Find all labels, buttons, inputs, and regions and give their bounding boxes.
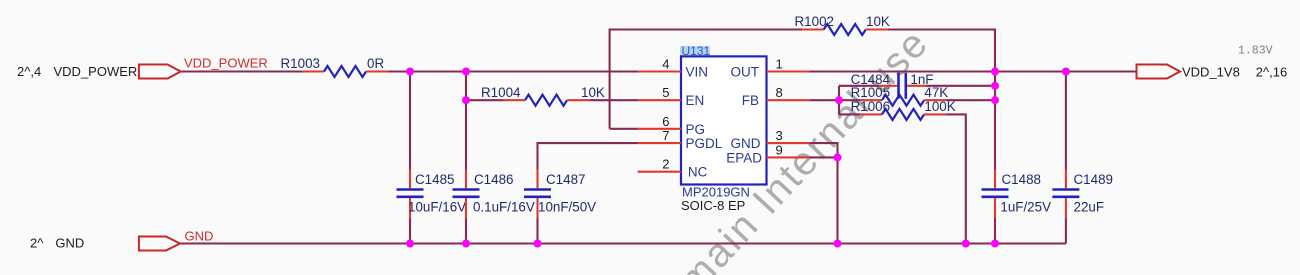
node main rail / C1485 [406,68,414,76]
wire FB vertical [838,86,840,115]
svg-text:4: 4 [662,57,669,72]
resistor R1005 [839,85,995,106]
svg-text:2^: 2^ [30,236,44,251]
wire top pullup right [888,30,995,72]
svg-text:47K: 47K [924,85,948,100]
pin 4 VIN [638,70,681,72]
node OUT / top [991,68,999,76]
pin 6 PG [610,128,639,130]
svg-text:FB: FB [742,93,759,108]
node EN branch [462,96,470,104]
pin 8 FB [767,99,810,101]
svg-text:6: 6 [662,114,669,129]
wire GND pin net [809,143,837,243]
svg-text:2: 2 [662,157,669,172]
wire FB node [809,99,839,101]
pin 3 GND [767,142,810,144]
svg-text:1uF/25V: 1uF/25V [1000,200,1051,215]
port VDD_1V8 output [1137,45,1288,80]
svg-text:EPAD: EPAD [726,150,762,165]
capacitor C1487 [524,170,596,244]
svg-text:0R: 0R [367,56,384,71]
pin 1 OUT [767,70,810,72]
svg-text:GND: GND [731,136,761,151]
svg-text:SOIC-8 EP: SOIC-8 EP [681,198,745,213]
svg-text:10K: 10K [581,85,605,100]
node GND / R1006 [962,240,970,248]
wire GND rail [180,242,1066,244]
svg-text:R1004: R1004 [481,85,521,100]
resistor R1003 [281,56,389,77]
svg-text:R1005: R1005 [851,85,890,100]
svg-text:1: 1 [776,57,783,72]
svg-text:EN: EN [686,93,705,108]
node GND / C1488 [991,240,999,248]
svg-text:10uF/16V: 10uF/16V [408,200,466,215]
svg-text:R1002: R1002 [795,14,834,29]
wire main VDD rail [181,70,303,72]
wire EN to pin [589,99,638,101]
capacitor C1486 [453,72,535,244]
capacitor C1488 [982,72,1052,244]
node EPAD junction [834,153,842,161]
pin 5 EN [638,99,681,101]
pin 7 PGDL [638,142,681,144]
svg-text:3: 3 [776,128,783,143]
capacitor C1489 [1052,72,1113,244]
capacitor C1485 [397,72,467,244]
svg-text:100K: 100K [924,99,955,114]
node main rail / C1486 [462,68,470,76]
svg-text:5: 5 [662,85,669,100]
svg-text:2^,16: 2^,16 [1256,64,1287,79]
svg-text:VDD_POWER: VDD_POWER [54,64,138,79]
node OUT / C1489 [1062,68,1070,76]
wire top pullup loop [610,30,803,129]
svg-text:2^,4: 2^,4 [17,64,41,79]
svg-text:10K: 10K [866,14,890,29]
svg-text:C1488: C1488 [1002,172,1041,187]
svg-text:PG: PG [686,122,706,137]
svg-text:NC: NC [688,165,708,180]
port GND [30,228,213,250]
wire PGDL net [538,143,639,169]
capacitor C1484 [839,72,995,99]
pin 9 EPAD [767,156,810,158]
svg-text:8: 8 [776,85,783,100]
node FB [835,96,843,104]
node GND / C1487 [534,240,542,248]
node OUT / C1484 [991,82,999,90]
svg-text:C1485: C1485 [415,172,454,187]
svg-text:GND: GND [185,228,214,243]
wire EPAD net [809,156,837,158]
wire OUT rail [809,70,1136,72]
svg-text:PGDL: PGDL [686,136,723,151]
svg-text:7: 7 [662,128,669,143]
svg-text:VDD_1V8: VDD_1V8 [1182,64,1240,79]
op-amp U131 IC box [680,44,767,213]
node GND / EPAD [834,240,842,248]
resistor R1006 [839,99,966,243]
svg-text:C1487: C1487 [546,172,585,187]
wire EN branch [466,99,504,101]
svg-text:OUT: OUT [731,65,760,80]
svg-text:C1486: C1486 [474,172,513,187]
node GND / C1486 [462,240,470,248]
svg-text:C1489: C1489 [1074,172,1113,187]
svg-text:GND: GND [55,236,84,251]
svg-text:R1003: R1003 [281,56,320,71]
svg-text:9: 9 [776,142,783,157]
svg-text:1.83V: 1.83V [1238,45,1273,58]
wire VDD rail mid [388,70,638,72]
svg-text:22uF: 22uF [1074,200,1105,215]
svg-text:VDD_POWER: VDD_POWER [184,56,268,71]
svg-text:10nF/50V: 10nF/50V [538,200,596,215]
svg-text:R1006: R1006 [851,99,890,114]
svg-text:0.1uF/16V: 0.1uF/16V [473,200,535,215]
svg-text:VIN: VIN [686,65,709,80]
resistor R1002 [795,14,890,35]
node OUT / R1005 [991,96,999,104]
node GND / C1485 [406,240,414,248]
resistor R1004 [481,85,605,106]
port VDD_POWER input [17,56,268,79]
pin 2 NC [638,171,681,173]
